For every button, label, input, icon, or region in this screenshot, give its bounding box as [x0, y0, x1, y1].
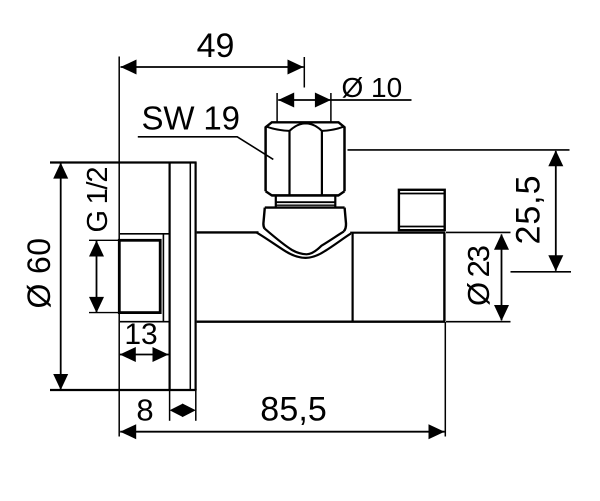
svg-text:Ø 60: Ø 60 [21, 238, 57, 309]
valve body [197, 232, 445, 321]
collar rings below nut [276, 197, 336, 208]
dimension dia 60 [53, 163, 68, 390]
compression nut SW 19 [266, 122, 345, 195]
rosette top edge + dia60 upper reference line [50, 161, 197, 163]
leader line for SW 19 [138, 137, 273, 160]
svg-text:8: 8 [136, 393, 153, 428]
dia23 reference lines [446, 231, 511, 233]
svg-text:85,5: 85,5 [260, 391, 327, 429]
dimension 49 [121, 57, 305, 88]
svg-text:Ø 10: Ø 10 [342, 72, 403, 103]
25,5 reference lines [348, 149, 570, 151]
dimension 85,5 [120, 322, 445, 439]
dimension dia 23 [494, 234, 509, 321]
rosette bottom edge + dia60 lower reference line [50, 389, 197, 391]
outlet neck [263, 208, 346, 232]
dimension 13 [120, 347, 169, 362]
body section division line [352, 233, 354, 322]
svg-text:25,5: 25,5 [510, 176, 548, 245]
G1/2 threaded stub [119, 234, 168, 322]
handle cap [399, 190, 445, 230]
dimension dia 10 [277, 93, 411, 122]
svg-text:13: 13 [124, 318, 157, 351]
saddle fillet curves [257, 229, 351, 258]
svg-text:SW 19: SW 19 [142, 100, 241, 137]
dimension 8 [170, 390, 196, 421]
left extension line (shared by dims 49 and 85,5) [118, 57, 120, 437]
dimension 25,5 [548, 150, 563, 271]
svg-text:49: 49 [197, 27, 235, 65]
dimension G1/2 [89, 240, 118, 313]
svg-text:G 1/2: G 1/2 [82, 167, 114, 233]
svg-text:Ø 23: Ø 23 [461, 245, 496, 306]
wall rosette [170, 163, 196, 391]
